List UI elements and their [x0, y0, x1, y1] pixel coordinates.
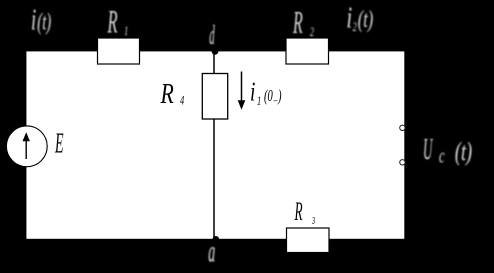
wire top [25, 49, 405, 51]
node label d [209, 22, 215, 51]
svg-text:R: R [292, 5, 303, 40]
svg-text:c: c [439, 144, 445, 167]
resistor R4 [202, 74, 227, 120]
svg-text:d: d [209, 22, 215, 51]
node a [212, 236, 219, 243]
svg-text:E: E [54, 127, 63, 159]
label E [54, 127, 63, 159]
current arrow i1 [238, 72, 246, 110]
svg-text:R: R [160, 80, 174, 110]
resistor R2 [286, 38, 329, 64]
svg-text:(t): (t) [358, 7, 374, 33]
node label a [208, 236, 215, 270]
svg-text:1: 1 [124, 24, 128, 39]
svg-text:R: R [107, 3, 118, 40]
wire right [405, 49, 407, 240]
resistor R3 [287, 228, 330, 253]
label R2 [292, 5, 314, 40]
node d [212, 48, 219, 55]
svg-text:2: 2 [353, 20, 357, 35]
terminal top [400, 125, 405, 130]
svg-text:1: 1 [257, 94, 261, 108]
svg-text:(t): (t) [37, 9, 51, 36]
terminal bottom [400, 160, 405, 165]
svg-text:a: a [208, 236, 215, 270]
wire branch d to R4 [213, 51, 215, 74]
wire R4 to a [213, 119, 215, 240]
svg-text:3: 3 [311, 216, 315, 227]
svg-text:(0: (0 [264, 87, 273, 106]
svg-text:4: 4 [180, 94, 185, 108]
label i2(t) [347, 0, 374, 35]
svg-text:(t): (t) [455, 137, 472, 166]
svg-text:i: i [347, 0, 353, 34]
label R1 [107, 3, 128, 40]
svg-text:i: i [250, 77, 255, 107]
voltage source E [6, 126, 47, 167]
label i(t) [31, 1, 51, 36]
svg-text:): ) [277, 87, 281, 106]
svg-text:U: U [423, 133, 433, 167]
resistor R1 [98, 38, 140, 64]
svg-text:i: i [31, 1, 36, 36]
label R4 [160, 80, 185, 110]
wire left [24, 49, 26, 240]
label i1(0-) [250, 77, 282, 108]
wire bottom [25, 239, 405, 241]
svg-text:2: 2 [310, 25, 314, 40]
svg-text:R: R [294, 196, 303, 226]
svg-text:–: – [273, 94, 278, 107]
label R3 [294, 196, 315, 226]
circuit interior [26, 51, 404, 239]
label Uc(t) [423, 133, 472, 167]
